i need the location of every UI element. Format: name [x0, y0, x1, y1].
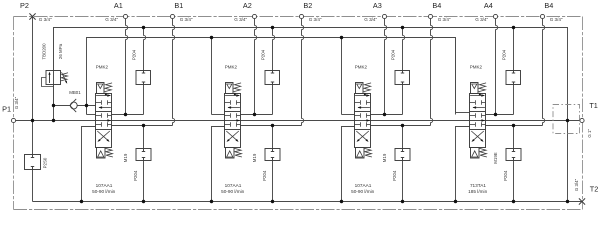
- svg-text:107AA1: 107AA1: [355, 183, 372, 188]
- svg-text:T1: T1: [589, 101, 598, 110]
- svg-text:B4: B4: [432, 1, 441, 10]
- svg-text:185 l/min: 185 l/min: [468, 189, 487, 194]
- port B4: [540, 14, 544, 18]
- wire pressure gallery P1 to T1: [14, 120, 583, 122]
- valve section A1 centre position: [96, 115, 102, 117]
- valve PMK2 section A1 body: [96, 94, 112, 148]
- svg-text:PMK2: PMK2: [470, 65, 483, 70]
- valve PMK2 section A3 spring return operator: [356, 148, 365, 159]
- valve PMK2 section A4 body: [470, 94, 486, 148]
- valve PMK2 section A2 pilot operator: [226, 83, 234, 94]
- valve section A3 position a: [355, 95, 369, 97]
- wire work port line A3: [371, 114, 403, 116]
- outlet section dashed frame: [553, 105, 580, 134]
- plug M19 section A1: [136, 149, 151, 161]
- valve section A3 centre position: [355, 115, 361, 117]
- svg-text:B4: B4: [544, 1, 553, 10]
- wire tank drain section A1: [82, 127, 96, 202]
- svg-text:50-90 l/min: 50-90 l/min: [92, 189, 116, 194]
- valve PMK2 section A4 spring return operator: [471, 148, 480, 159]
- port A4: [493, 14, 497, 18]
- wire plug branch upper section A3: [403, 28, 405, 71]
- wire feed drop section A3: [341, 38, 343, 115]
- port T2 plugged: [579, 198, 585, 204]
- wire tank return bottom: [33, 201, 583, 203]
- valve PMK2 section A3 pilot operator: [356, 83, 364, 94]
- wire plug branch lower section A2: [272, 126, 274, 149]
- svg-text:T2: T2: [590, 185, 599, 194]
- valve section A4 position b: [472, 131, 483, 141]
- svg-text:P1: P1: [2, 105, 11, 114]
- wire tank drain section A4: [456, 127, 470, 202]
- svg-text:MB01: MB01: [69, 90, 81, 95]
- svg-text:P2: P2: [20, 1, 29, 10]
- valve PMK2 section A2 body: [225, 94, 241, 148]
- valve section A1 position b: [98, 131, 109, 141]
- valve PMK2 section A1 pilot operator: [97, 83, 105, 94]
- wire plug branch lower section A1: [143, 126, 145, 149]
- plug M19E section A4: [506, 149, 521, 161]
- port B2: [299, 14, 303, 18]
- svg-text:P204: P204: [261, 49, 266, 60]
- valve section A4 centre position: [470, 115, 476, 117]
- port A2: [252, 14, 256, 18]
- port T1: [580, 118, 584, 122]
- svg-text:107AA1: 107AA1: [96, 183, 113, 188]
- wire parallel feed gallery: [87, 38, 456, 115]
- wire plug branch upper section A2: [273, 28, 275, 71]
- svg-text:P204: P204: [392, 170, 397, 181]
- svg-text:G 3/4": G 3/4": [14, 96, 19, 109]
- svg-text:M19: M19: [252, 153, 257, 162]
- wire work port line B1: [112, 125, 173, 127]
- wire work port line B2: [241, 125, 302, 127]
- enclosure border top: [14, 16, 583, 18]
- wire relief valve branch: [53, 28, 55, 71]
- port A1: [123, 14, 127, 18]
- svg-text:50-90 l/min: 50-90 l/min: [221, 189, 245, 194]
- valve section A1 position a: [96, 95, 110, 97]
- svg-text:713TA1: 713TA1: [470, 183, 486, 188]
- svg-text:A3: A3: [373, 1, 382, 10]
- svg-text:G 3/4": G 3/4": [438, 17, 451, 22]
- svg-text:G 1": G 1": [587, 129, 592, 138]
- svg-text:G 3/4": G 3/4": [475, 17, 488, 22]
- plug M19 section A2: [265, 149, 280, 161]
- plug P204 section A1: [136, 71, 151, 85]
- relief valve TBD200: [46, 71, 61, 85]
- enclosure border right: [582, 17, 584, 210]
- svg-text:M19: M19: [382, 153, 387, 162]
- wire feed drop section A4: [455, 38, 457, 113]
- wire plug branch upper section A4: [513, 28, 515, 71]
- wire tank drain section A2: [212, 127, 225, 202]
- port P2 plugged: [29, 13, 35, 19]
- svg-text:26 MPa: 26 MPa: [58, 43, 63, 59]
- wire section1 feed stub: [86, 106, 88, 115]
- wire work port line A1: [112, 114, 144, 116]
- wire P2 branch: [32, 17, 34, 155]
- svg-text:P204: P204: [502, 49, 507, 60]
- wire tank drain section A3: [342, 127, 355, 202]
- valve PMK2 section A2 spring return operator: [226, 148, 235, 159]
- svg-text:A1: A1: [114, 1, 123, 10]
- plug P2S0: [25, 155, 41, 170]
- wire work port line B4: [371, 125, 431, 127]
- svg-text:G 3/4": G 3/4": [234, 17, 247, 22]
- svg-text:A4: A4: [484, 1, 493, 10]
- enclosure border bottom: [14, 209, 583, 211]
- valve section A4 position a: [470, 95, 484, 97]
- wire plug branch lower section A3: [402, 126, 404, 149]
- port P1: [11, 118, 15, 122]
- svg-text:PMK2: PMK2: [96, 65, 109, 70]
- enclosure border left: [13, 17, 15, 210]
- wire plug branch lower section A4: [513, 126, 515, 149]
- svg-text:A2: A2: [243, 1, 252, 10]
- svg-text:P2S0: P2S0: [43, 157, 48, 168]
- valve PMK2 section A1 spring return operator: [97, 148, 106, 159]
- wire work port line A2: [241, 114, 273, 116]
- valve PMK2 section A3 body: [355, 94, 371, 148]
- port B4: [428, 14, 432, 18]
- plug M19 section A3: [395, 149, 410, 161]
- junction dots: [142, 26, 145, 29]
- plug P204 section A3: [395, 71, 410, 85]
- svg-text:G 3/4": G 3/4": [550, 17, 563, 22]
- svg-text:M19: M19: [123, 153, 128, 162]
- wire plug branch upper section A1: [144, 28, 146, 71]
- svg-text:G 3/4": G 3/4": [309, 17, 322, 22]
- svg-text:TBD200: TBD200: [42, 43, 47, 60]
- port A3: [382, 14, 386, 18]
- plug P204 section A2: [265, 71, 280, 85]
- svg-text:P204: P204: [132, 49, 137, 60]
- wire feed drop section A2: [211, 38, 213, 115]
- wire work port line A4: [486, 114, 514, 116]
- wire inlet check line: [54, 105, 70, 107]
- svg-text:P204: P204: [391, 49, 396, 60]
- valve section A2 position b: [227, 131, 238, 141]
- svg-text:P204: P204: [133, 170, 138, 181]
- svg-text:P204: P204: [503, 170, 508, 181]
- svg-text:G 3/4": G 3/4": [574, 178, 579, 191]
- svg-text:M19E: M19E: [493, 152, 498, 164]
- wire tank gallery top: [54, 28, 568, 202]
- svg-text:107AA1: 107AA1: [225, 183, 242, 188]
- plug P204 section A4: [506, 71, 521, 85]
- valve PMK2 section A4 pilot operator: [471, 83, 479, 94]
- port B1: [170, 14, 174, 18]
- wire work port line B4: [486, 125, 543, 127]
- svg-text:50-90 l/min: 50-90 l/min: [351, 189, 375, 194]
- valve section A2 position a: [225, 95, 239, 97]
- svg-text:B2: B2: [303, 1, 312, 10]
- svg-text:PMK2: PMK2: [355, 65, 368, 70]
- check valve MB01: [70, 102, 77, 109]
- svg-text:G 3/4": G 3/4": [364, 17, 377, 22]
- valve section A2 centre position: [225, 115, 231, 117]
- svg-text:B1: B1: [174, 1, 183, 10]
- svg-text:P204: P204: [262, 170, 267, 181]
- svg-text:G 3/4": G 3/4": [39, 17, 52, 22]
- svg-text:PMK2: PMK2: [225, 65, 238, 70]
- valve section A3 position b: [357, 131, 368, 141]
- svg-text:G 3/4": G 3/4": [105, 17, 118, 22]
- svg-text:G 3/4": G 3/4": [180, 17, 193, 22]
